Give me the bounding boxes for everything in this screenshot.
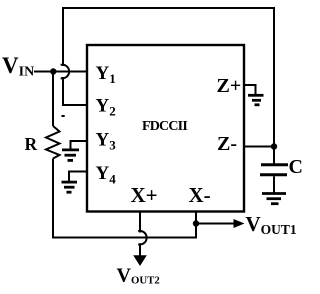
wire Y2 riser upper <box>62 7 64 66</box>
wire X- pin down <box>195 211 197 224</box>
capacitor C <box>260 147 288 193</box>
arrowhead VOUT1 <box>234 219 245 228</box>
svg-text:Z-: Z- <box>217 133 237 155</box>
wire Y2 riser lower <box>62 77 64 106</box>
junction dot at X- node <box>193 220 199 226</box>
wire X+ pin down <box>139 211 141 233</box>
wire VIN node down to resistor <box>52 72 54 127</box>
wire Y2 horizontal <box>62 104 87 106</box>
arrowhead VOUT2 <box>133 255 147 266</box>
svg-text:FDCCII: FDCCII <box>142 119 187 134</box>
wire Y3 stub <box>71 141 88 149</box>
wire Y4 stub <box>69 172 87 182</box>
svg-text:R: R <box>25 134 38 154</box>
wire hop over VIN wire <box>61 65 69 79</box>
ground at Y3 <box>62 150 79 161</box>
wire hop over feedback wire <box>138 231 146 245</box>
junction dot at Z- node <box>271 143 277 149</box>
wire bottom feedback to X- node <box>52 237 196 239</box>
ground at Z+ <box>248 95 264 105</box>
svg-text:X-: X- <box>189 183 211 207</box>
wire resistor bottom down <box>52 159 54 239</box>
wire X+ down to VOUT2 arrow <box>139 243 141 257</box>
wire riser to X- node <box>195 224 197 239</box>
stray mark <box>62 115 65 117</box>
wire Z- stub <box>244 146 274 148</box>
ground below capacitor <box>262 194 286 204</box>
svg-text:Z+: Z+ <box>217 75 242 97</box>
op-amp U1 FDCCII block body <box>87 45 244 212</box>
svg-text:C: C <box>289 156 303 178</box>
svg-text:X+: X+ <box>131 183 158 207</box>
wire right drop to Z- node <box>273 8 275 147</box>
resistor R <box>46 126 60 159</box>
wire Z+ stub <box>244 85 256 95</box>
wire VIN to Y1 <box>34 71 87 73</box>
wire top feedback Y2 to Z- <box>62 7 275 9</box>
ground at Y4 <box>62 182 78 192</box>
junction dot at VIN node <box>50 68 56 74</box>
wire arrow to VOUT1 <box>196 223 235 225</box>
